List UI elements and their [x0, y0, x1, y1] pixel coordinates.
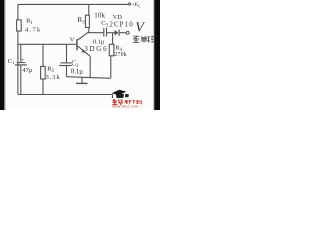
svg-text:3DG6: 3DG6: [84, 45, 107, 53]
svg-text:0.1μ: 0.1μ: [71, 69, 83, 76]
svg-text:270k: 270k: [114, 52, 126, 58]
svg-text:3.3k: 3.3k: [46, 74, 61, 81]
svg-text:V: V: [135, 21, 145, 36]
svg-text:V: V: [70, 36, 75, 43]
svg-text:0.1μ: 0.1μ: [93, 38, 105, 45]
svg-text:+EC: +EC: [132, 2, 142, 8]
svg-text:2CP10: 2CP10: [109, 21, 133, 29]
svg-text:www.dzsc.com···: www.dzsc.com···: [112, 105, 142, 109]
svg-text:4.7k: 4.7k: [25, 26, 41, 33]
svg-text:47μ: 47μ: [22, 67, 33, 74]
svg-text:10k: 10k: [94, 11, 105, 19]
